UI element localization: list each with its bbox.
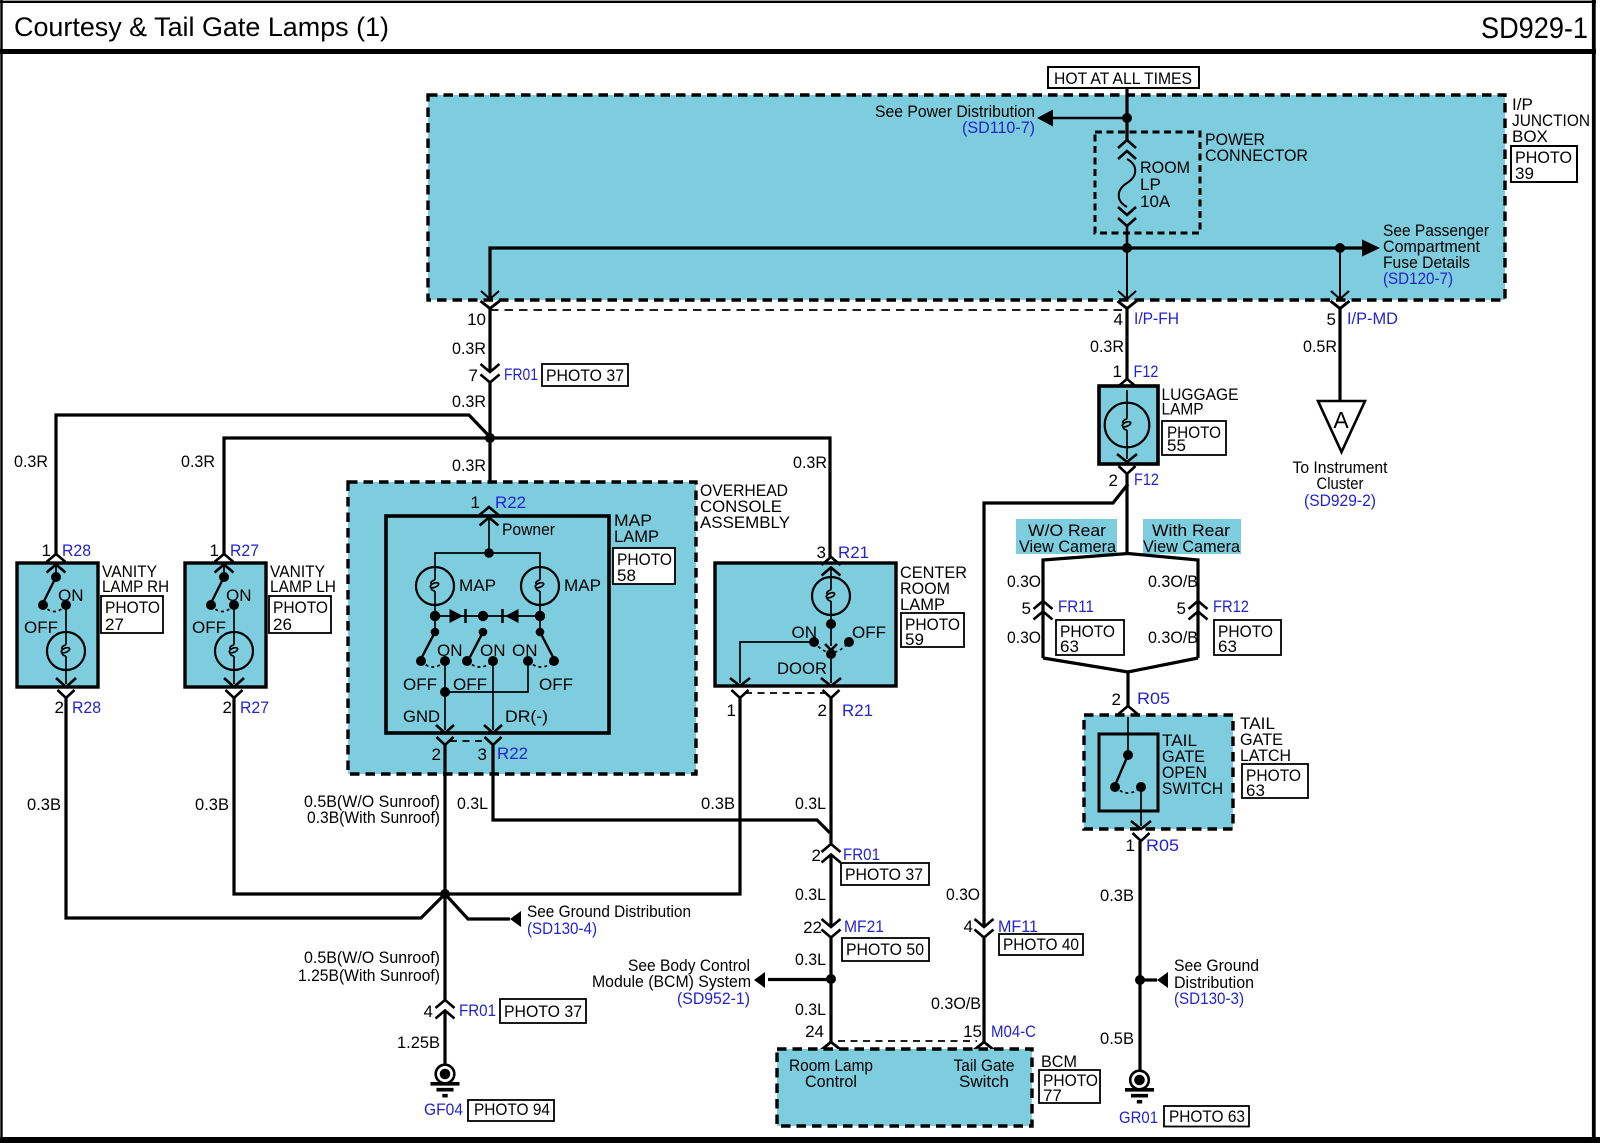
connector R21 pin 1: [732, 690, 749, 698]
svg-text:63: 63: [1060, 637, 1079, 656]
node: lamp bus: [484, 548, 494, 558]
ref arrow: see power distribution: [1037, 110, 1053, 127]
svg-text:R22: R22: [495, 493, 526, 512]
svg-text:0.3L: 0.3L: [795, 885, 826, 904]
svg-text:ASSEMBLY: ASSEMBLY: [700, 513, 790, 532]
svg-text:(SD929-2): (SD929-2): [1304, 491, 1376, 510]
svg-text:10: 10: [467, 310, 486, 329]
svg-text:5: 5: [1327, 310, 1336, 329]
svg-text:4: 4: [1114, 310, 1123, 329]
title divider: [0, 49, 1596, 54]
center room lamp box: [715, 563, 896, 686]
exit arrows: [730, 678, 750, 686]
svg-text:(SD110-7): (SD110-7): [962, 118, 1035, 137]
svg-text:0.3R: 0.3R: [181, 452, 215, 471]
wire: into map lamp: [488, 518, 490, 553]
svg-text:ON: ON: [437, 641, 463, 660]
svg-text:View Camera: View Camera: [1143, 537, 1241, 556]
wire: HOT feed down into box: [1125, 88, 1128, 140]
highlight W/O rear view camera: [1016, 519, 1117, 554]
svg-text:R21: R21: [842, 701, 873, 720]
svg-text:ON: ON: [512, 641, 538, 660]
svg-text:PHOTO 40: PHOTO 40: [1003, 935, 1079, 954]
svg-text:DOOR: DOOR: [777, 659, 827, 678]
switch RH: [55, 565, 57, 576]
svg-text:15: 15: [963, 1022, 982, 1041]
svg-text:PHOTO 37: PHOTO 37: [504, 1002, 582, 1021]
svg-text:Switch: Switch: [959, 1072, 1009, 1091]
svg-text:R05: R05: [1146, 836, 1179, 855]
connector R28 pin 1: [47, 554, 66, 573]
svg-text:0.3R: 0.3R: [452, 339, 486, 358]
wire: to see power distribution: [1040, 117, 1127, 120]
luggage lamp: [1105, 403, 1150, 448]
svg-text:DR(-): DR(-): [505, 707, 548, 726]
svg-text:R27: R27: [240, 698, 269, 717]
wire: vanity LH pin2 to bus: [234, 698, 445, 894]
pin bridge dashed: [838, 1040, 977, 1042]
connector R27 pin 2: [226, 690, 243, 698]
svg-text:0.3R: 0.3R: [452, 456, 486, 475]
svg-text:Control: Control: [805, 1072, 857, 1091]
svg-text:(SD952-1): (SD952-1): [677, 989, 750, 1008]
wire: lamp1 to diode node: [434, 605, 436, 631]
connector R21 pin 3: [822, 557, 841, 576]
svg-text:7: 7: [469, 366, 478, 385]
svg-text:0.5R: 0.5R: [1303, 337, 1337, 356]
svg-text:R22: R22: [497, 744, 528, 763]
wire: R22 pin2 (GND) down: [443, 745, 446, 894]
wire: pin2 down with branch: [1125, 474, 1128, 553]
wire down: [829, 855, 832, 927]
photo 39 box: [1511, 146, 1577, 182]
exit arrows: [436, 725, 454, 733]
wire: lamp2 to diode node: [539, 605, 541, 631]
svg-text:4: 4: [964, 917, 973, 936]
svg-text:OFF: OFF: [852, 623, 886, 642]
svg-text:View Camera: View Camera: [1019, 537, 1117, 556]
switch 2 (door): [479, 628, 488, 637]
wire: I/P-FH pin 4 down: [1125, 309, 1128, 380]
switch 1 (left map): [431, 628, 440, 637]
vanity lamp LH box: [185, 563, 266, 687]
wire: R05 pin1 down: [1138, 841, 1141, 1071]
svg-text:FR11: FR11: [1058, 597, 1094, 616]
wire: switch to lamp: [233, 605, 235, 633]
switch LH: [223, 565, 225, 576]
ref arrow: see passenger compartment fuse details: [1362, 240, 1380, 257]
diode D1: [450, 609, 464, 623]
vanity lamp RH box: [17, 563, 98, 687]
svg-text:1.25B(With Sunroof): 1.25B(With Sunroof): [298, 966, 440, 985]
svg-text:22: 22: [803, 918, 822, 937]
svg-text:Courtesy & Tail Gate Lamps (1): Courtesy & Tail Gate Lamps (1): [14, 12, 389, 42]
connector: I/P pin 10: [481, 291, 499, 299]
connector R27 pin 1: [215, 554, 234, 573]
connector R28 pin 2: [58, 690, 75, 698]
svg-text:MF21: MF21: [844, 917, 884, 936]
svg-text:LAMP LH: LAMP LH: [270, 577, 336, 596]
wire down: [982, 937, 985, 1042]
wire: switch to lamp: [65, 605, 67, 633]
svg-text:LAMP: LAMP: [614, 527, 659, 546]
wire: I/P-MD pin 5 down: [1338, 309, 1341, 402]
wire: pin 4 drop: [1126, 248, 1128, 298]
svg-text:MAP: MAP: [459, 576, 496, 595]
svg-text:2: 2: [812, 846, 821, 865]
wire: R22 pin3 (DR) to FR01-2: [493, 745, 830, 833]
map lamp 2: [521, 567, 559, 605]
node: gnd: [440, 687, 450, 697]
svg-text:24: 24: [805, 1022, 824, 1041]
wire: sw1 ON to gnd node: [444, 661, 446, 692]
overhead console assembly box: [348, 482, 696, 774]
wire down: [829, 937, 832, 1042]
node: power distribution tap: [1122, 113, 1132, 123]
ground GR01: [1125, 1071, 1154, 1102]
map lamp 1: [416, 567, 454, 605]
svg-text:(SD130-4): (SD130-4): [527, 919, 597, 938]
svg-text:1: 1: [727, 701, 736, 720]
connector: I/P pin 5 I/P-MD: [1331, 301, 1350, 309]
connector MF21 pin 22: [822, 919, 841, 938]
svg-text:59: 59: [905, 630, 924, 649]
svg-text:2: 2: [223, 698, 232, 717]
wire: contact down / exit: [1140, 787, 1142, 826]
wire out / arrow: [1126, 447, 1128, 459]
bottom thick border: [0, 1137, 1600, 1143]
connector FR11 pin 5: [1034, 601, 1053, 620]
node: ground junction: [440, 889, 450, 899]
svg-text:63: 63: [1218, 637, 1237, 656]
wire: branch to BCM tail gate switch: [984, 484, 1128, 927]
svg-text:OFF: OFF: [24, 618, 58, 637]
svg-text:0.5B(W/O Sunroof): 0.5B(W/O Sunroof): [304, 948, 440, 967]
svg-text:R28: R28: [62, 541, 91, 560]
svg-text:A: A: [1333, 407, 1349, 433]
connector R05 pin 1: [1133, 833, 1150, 841]
svg-text:GR01: GR01: [1119, 1108, 1158, 1127]
wire: fuse to bus: [1126, 226, 1129, 248]
center room lamp: [812, 577, 850, 615]
svg-text:0.3B: 0.3B: [27, 795, 61, 814]
svg-text:0.3R: 0.3R: [793, 453, 827, 472]
node: bus I/P-MD junction: [1335, 243, 1345, 253]
ref arrow: see ground distribution SD130-4: [445, 894, 510, 919]
exit arrow: [65, 670, 67, 684]
svg-text:5: 5: [1177, 599, 1186, 618]
svg-text:1: 1: [471, 493, 480, 512]
page frame: [0, 1, 1596, 3]
svg-text:1: 1: [42, 541, 51, 560]
svg-text:0.3R: 0.3R: [452, 392, 486, 411]
svg-text:0.3O/B: 0.3O/B: [1148, 628, 1198, 647]
svg-text:0.3O/B: 0.3O/B: [931, 994, 981, 1013]
svg-text:R05: R05: [1137, 689, 1170, 708]
svg-text:0.3L: 0.3L: [457, 794, 488, 813]
node: diode center: [478, 611, 488, 621]
svg-text:0.3O: 0.3O: [946, 885, 980, 904]
svg-text:0.3O: 0.3O: [1007, 572, 1041, 591]
svg-text:10A: 10A: [1140, 192, 1171, 211]
wire: R21 pin2 down: [829, 698, 832, 844]
ref arrow: see BCM system: [768, 978, 831, 981]
svg-text:27: 27: [105, 615, 124, 634]
svg-text:GND: GND: [403, 707, 440, 726]
svg-text:BCM: BCM: [1041, 1052, 1077, 1071]
svg-text:ON: ON: [792, 623, 818, 642]
svg-text:0.3O/B: 0.3O/B: [1148, 572, 1198, 591]
svg-text:FR01: FR01: [459, 1001, 496, 1020]
lamp LH: [215, 632, 253, 670]
svg-text:(SD130-3): (SD130-3): [1174, 989, 1244, 1008]
svg-text:0.3B(With Sunroof): 0.3B(With Sunroof): [307, 808, 440, 827]
wire: lamp bus: [435, 553, 540, 567]
tail gate open switch box: [1099, 734, 1158, 811]
svg-text:3: 3: [817, 543, 826, 562]
wire: sw2 ON to pin 3: [492, 661, 494, 730]
svg-text:Powner: Powner: [502, 520, 555, 539]
switch: [1127, 717, 1129, 755]
wire: vanity RH pin2 to bus: [66, 698, 445, 918]
svg-text:(SD120-7): (SD120-7): [1383, 269, 1453, 288]
wire: Y merge to R05: [1043, 658, 1198, 672]
svg-text:2: 2: [1109, 471, 1118, 490]
svg-text:0.3O: 0.3O: [1007, 628, 1041, 647]
svg-text:1: 1: [1126, 836, 1135, 855]
svg-text:FR12: FR12: [1213, 597, 1249, 616]
svg-text:R27: R27: [230, 541, 259, 560]
node: feed split: [485, 433, 495, 443]
svg-text:PHOTO 63: PHOTO 63: [1169, 1107, 1245, 1126]
svg-text:2: 2: [818, 701, 827, 720]
svg-text:1: 1: [1113, 362, 1122, 381]
node: ground distribution tap: [1135, 975, 1145, 985]
connector: I/P pin 4 I/P-FH: [1118, 301, 1137, 309]
svg-text:ON: ON: [226, 586, 252, 605]
node: bus/fuse junction: [1122, 243, 1132, 253]
connector R22 pin 1: [480, 507, 499, 526]
lamp RH: [47, 632, 85, 670]
svg-text:39: 39: [1515, 164, 1534, 183]
wire lamp to switch pivot: [830, 615, 832, 624]
svg-text:3: 3: [478, 745, 487, 764]
connector F12 pin 2: [1119, 466, 1136, 474]
wire: pin 5 drop: [1339, 248, 1341, 298]
svg-text:OFF: OFF: [192, 618, 226, 637]
svg-text:1: 1: [210, 541, 219, 560]
wire: R21 pin1 to bus: [445, 698, 740, 894]
svg-text:PHOTO 37: PHOTO 37: [845, 865, 923, 884]
svg-text:2: 2: [55, 698, 64, 717]
wire in: [1126, 390, 1128, 403]
svg-text:0.3R: 0.3R: [1090, 337, 1124, 356]
svg-text:55: 55: [1167, 436, 1186, 455]
svg-text:FR01: FR01: [504, 365, 538, 384]
ground GF04: [431, 1065, 460, 1096]
connector R05 pin 2: [1119, 706, 1138, 725]
svg-text:0.3L: 0.3L: [795, 950, 826, 969]
connector FR12 pin 5: [1189, 601, 1208, 620]
wire: junction down to GF04: [443, 894, 446, 1000]
svg-text:FR01: FR01: [843, 845, 880, 864]
svg-text:BOX: BOX: [1512, 127, 1548, 146]
svg-text:SWITCH: SWITCH: [1162, 779, 1223, 798]
luggage lamp box: [1099, 386, 1158, 464]
svg-text:0.3B: 0.3B: [701, 794, 735, 813]
BCM box: [777, 1049, 1032, 1126]
svg-text:2: 2: [1112, 690, 1121, 709]
svg-text:PHOTO 50: PHOTO 50: [846, 940, 924, 959]
svg-text:F12: F12: [1134, 362, 1159, 381]
svg-text:0.3R: 0.3R: [14, 452, 48, 471]
wire: gnd node to pin 2: [444, 692, 446, 730]
svg-text:LAMP RH: LAMP RH: [102, 577, 169, 596]
svg-text:I/P-FH: I/P-FH: [1134, 309, 1179, 328]
node: diode anode right: [535, 611, 545, 621]
connector bridge dashed line pin10-pin4: [490, 309, 1127, 311]
svg-text:R28: R28: [72, 698, 101, 717]
contacts: [809, 637, 819, 647]
svg-text:LATCH: LATCH: [1240, 746, 1291, 765]
svg-text:2: 2: [432, 745, 441, 764]
svg-text:0.3L: 0.3L: [795, 1000, 826, 1019]
connector R22 pin 2: [437, 737, 454, 745]
svg-text:4: 4: [424, 1002, 433, 1021]
svg-text:MAP: MAP: [564, 576, 601, 595]
wire: to ground: [443, 1011, 446, 1065]
connector FR01 pin 2: [822, 844, 841, 863]
wire into lamp: [830, 568, 832, 577]
connector R22 pin 3: [485, 737, 502, 745]
svg-text:I/P-MD: I/P-MD: [1347, 309, 1398, 328]
wire: Y split to FR11/FR12: [1043, 554, 1198, 659]
svg-text:0.3B: 0.3B: [1100, 886, 1134, 905]
svg-text:77: 77: [1043, 1086, 1062, 1105]
svg-text:PHOTO 37: PHOTO 37: [546, 366, 624, 385]
HOT AT ALL TIMES label: [1048, 67, 1199, 88]
wire: ON contact to pin 1: [740, 642, 814, 683]
connector BCM pin 15: [972, 1042, 997, 1052]
svg-text:R21: R21: [838, 543, 869, 562]
pin bridge dashed: [450, 740, 487, 742]
svg-text:CONNECTOR: CONNECTOR: [1205, 146, 1308, 165]
connector FR01 pin 4: [436, 1000, 455, 1019]
svg-text:26: 26: [273, 615, 292, 634]
svg-text:0.5B: 0.5B: [1100, 1029, 1134, 1048]
diode D2: [505, 609, 519, 623]
svg-text:OFF: OFF: [539, 675, 573, 694]
wire: pin10 down: [488, 309, 491, 373]
wire: internal bus: [490, 248, 1362, 298]
svg-text:0.3L: 0.3L: [795, 794, 826, 813]
switch 3 (right map): [536, 628, 545, 637]
wire: door contact to pin 2: [830, 654, 832, 683]
wire: diode row: [435, 615, 540, 617]
wire: branch to vanity RH: [56, 415, 490, 554]
fuse ROOM LP 10A: [1118, 140, 1136, 159]
svg-text:LAMP: LAMP: [1162, 400, 1204, 419]
svg-text:GF04: GF04: [424, 1100, 463, 1119]
pin bridge dashed: [745, 692, 825, 694]
svg-text:HOT AT ALL TIMES: HOT AT ALL TIMES: [1054, 69, 1192, 88]
connector F12 pin 1: [1118, 379, 1137, 398]
node: BCM tap: [826, 974, 836, 984]
wire: sw3 ON to gnd node: [445, 661, 528, 692]
wire: FR01-7 to junction: [488, 382, 491, 438]
node: diode anode left: [430, 611, 440, 621]
svg-text:ON: ON: [58, 586, 84, 605]
svg-text:ON: ON: [480, 641, 506, 660]
svg-text:58: 58: [617, 566, 636, 585]
svg-text:1.25B: 1.25B: [397, 1033, 440, 1052]
exit arrow: [233, 670, 235, 684]
svg-text:0.3B: 0.3B: [195, 795, 229, 814]
connector BCM pin 24: [819, 1042, 844, 1052]
symbol A to instrument cluster: [1318, 401, 1365, 452]
ref arrow: see ground distribution SD130-3: [1140, 978, 1157, 981]
map lamp box: [386, 516, 609, 733]
connector FR01 pin 7: [481, 364, 500, 383]
svg-text:PHOTO 94: PHOTO 94: [474, 1100, 550, 1119]
switch blade down (door position): [830, 624, 832, 646]
svg-text:SD929-1: SD929-1: [1481, 12, 1588, 45]
tail gate latch box: [1084, 715, 1233, 829]
wire: branch bus to vanity LH / center lamp: [224, 438, 830, 557]
highlight With rear view camera: [1143, 519, 1241, 554]
POWER CONNECTOR dashed box: [1095, 132, 1200, 233]
svg-text:OFF: OFF: [403, 675, 437, 694]
svg-text:5: 5: [1022, 599, 1031, 618]
svg-text:LAMP: LAMP: [900, 595, 945, 614]
connector R21 pin 2: [823, 690, 840, 698]
svg-text:63: 63: [1246, 781, 1265, 800]
svg-text:M04-C: M04-C: [991, 1022, 1036, 1041]
connector MF11 pin 4: [975, 919, 994, 938]
wire: down to overhead console: [488, 438, 491, 507]
I/P junction box (shaded): [428, 95, 1505, 300]
svg-text:F12: F12: [1134, 470, 1159, 489]
